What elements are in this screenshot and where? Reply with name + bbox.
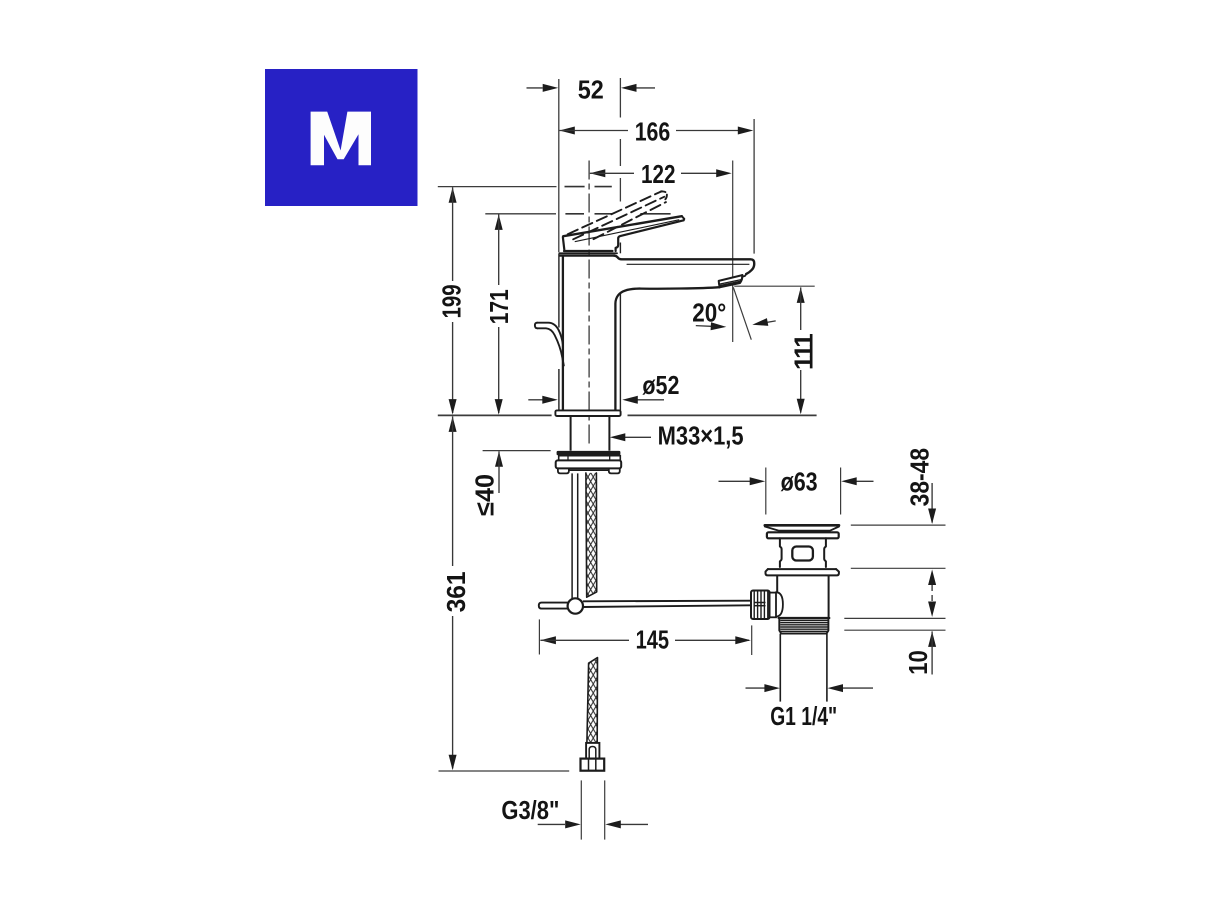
svg-text:M33×1,5: M33×1,5 xyxy=(658,421,744,451)
svg-text:171: 171 xyxy=(484,289,514,324)
svg-text:ø63: ø63 xyxy=(781,466,818,496)
svg-text:20°: 20° xyxy=(692,298,726,328)
svg-text:38-48: 38-48 xyxy=(904,448,934,507)
svg-text:G1 1/4": G1 1/4" xyxy=(770,701,837,731)
svg-text:199: 199 xyxy=(436,284,466,318)
svg-text:122: 122 xyxy=(641,159,676,189)
svg-text:≤40: ≤40 xyxy=(470,474,500,516)
svg-text:G3/8": G3/8" xyxy=(501,795,559,825)
svg-text:ø52: ø52 xyxy=(642,370,679,400)
svg-text:166: 166 xyxy=(635,116,671,146)
svg-text:361: 361 xyxy=(441,571,471,612)
svg-text:52: 52 xyxy=(578,75,604,105)
svg-text:145: 145 xyxy=(636,625,670,655)
svg-text:111: 111 xyxy=(789,334,819,370)
svg-text:10: 10 xyxy=(903,650,933,675)
